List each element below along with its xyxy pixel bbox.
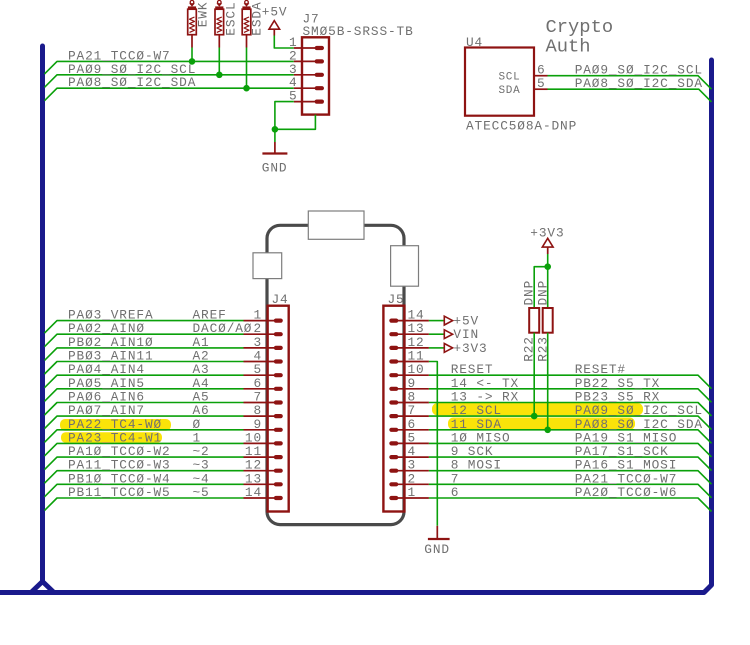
- wire net PA09_S0_I2C_SCL: [429, 416, 712, 430]
- wire net PA20_TCC0-W6: [429, 498, 712, 512]
- wire net PB22_S5_TX: [429, 389, 712, 403]
- wire J5 pin11 to GND: [429, 362, 437, 526]
- junction EWK net: [189, 58, 196, 65]
- wire net PA21_TCC0-W7 (J7 row): [45, 61, 294, 74]
- junction R23/SDA: [544, 427, 551, 434]
- svg-text:J4: J4: [272, 292, 289, 307]
- highlight PA23_TC4-W1: [61, 432, 162, 442]
- svg-text:~5: ~5: [193, 485, 210, 500]
- supply arrow +5V: [444, 316, 452, 325]
- wire R22 to SCL net: [533, 333, 535, 416]
- wire J7 pin5 to GND: [275, 102, 294, 130]
- ground GND (J7): [262, 142, 287, 154]
- wire net PA06_AIN6: [45, 403, 244, 416]
- resistor R23: [543, 308, 553, 333]
- wire net PB02_AIN10: [45, 348, 244, 361]
- svg-text:DNP: DNP: [535, 280, 550, 306]
- wire net PA23_TC4-W1: [45, 443, 244, 456]
- svg-text:+5V: +5V: [262, 5, 288, 20]
- junction R22/SCL: [531, 413, 538, 420]
- resistor ESCL: [215, 0, 224, 47]
- wire net PB03_AIN11: [45, 362, 244, 375]
- highlight 12 SCL / PA09 row: [432, 403, 643, 415]
- svg-text:PAØ8_SØ_I2C_SDA: PAØ8_SØ_I2C_SDA: [575, 76, 703, 91]
- bus left vertical: [40, 46, 45, 581]
- svg-text:ATECC5Ø8A-DNP: ATECC5Ø8A-DNP: [466, 119, 577, 134]
- junction ESDA net: [243, 85, 250, 92]
- resistor ESDA: [242, 0, 251, 47]
- supply +5V: [269, 21, 280, 30]
- wire net PA16_S1_MOSI: [429, 471, 712, 485]
- svg-text:5: 5: [537, 76, 546, 91]
- wire net PA08_S0_I2C_SDA (J7 row): [45, 88, 294, 101]
- bus left Y-junction: [31, 582, 54, 593]
- wire net PA09_S0_I2C_SCL (U4): [548, 76, 712, 90]
- svg-text:Auth: Auth: [546, 35, 591, 57]
- wire net PB10_TCC0-W4: [45, 484, 244, 497]
- USB connector: [308, 211, 364, 239]
- wire net PA19_S1_MISO: [429, 443, 712, 457]
- svg-text:+3V3: +3V3: [453, 341, 487, 356]
- wire net PA10_TCC0-W2: [45, 457, 244, 470]
- junction +3V3 split: [544, 263, 551, 270]
- svg-text:ESDA: ESDA: [250, 1, 265, 35]
- svg-text:GND: GND: [262, 161, 288, 176]
- supply +3V3: [542, 238, 553, 247]
- wire net PA11_TCC0-W3: [45, 471, 244, 484]
- supply arrow +3V3: [444, 344, 452, 353]
- wire net PA08_S0_I2C_SDA: [429, 430, 712, 444]
- connector J4: [244, 306, 289, 512]
- ground GND (J5): [428, 526, 450, 539]
- wire J7 shield to GND: [275, 115, 316, 130]
- junction GND J7: [272, 126, 279, 133]
- resistor EWK: [188, 0, 197, 47]
- svg-text:SMØ5B-SRSS-TB: SMØ5B-SRSS-TB: [303, 24, 414, 39]
- svg-text:1: 1: [408, 485, 417, 500]
- svg-text:SDA: SDA: [499, 85, 521, 97]
- wire J5 to VIN arrow: [429, 333, 444, 335]
- connector J7: [294, 37, 329, 114]
- highlight 11 SDA / PA08 row: [448, 418, 635, 430]
- wire net RESET#: [429, 375, 712, 389]
- wire junction to GND symbol: [274, 129, 276, 142]
- IC U4 ATECC508A: [465, 48, 548, 116]
- svg-text:EWK: EWK: [196, 2, 211, 28]
- resistor R22: [529, 308, 539, 333]
- wire net PB11_TCC0-W5: [45, 498, 244, 511]
- wire net PA05_AIN5: [45, 389, 244, 402]
- svg-text:GND: GND: [424, 542, 450, 557]
- svg-text:DNP: DNP: [522, 280, 537, 306]
- wire net PB23_S5_RX: [429, 403, 712, 417]
- svg-text:PB11_TCCØ-W5: PB11_TCCØ-W5: [68, 485, 171, 500]
- svg-text:PA2Ø_TCCØ-W6: PA2Ø_TCCØ-W6: [575, 485, 678, 500]
- wire +3V3 to R23: [547, 267, 549, 308]
- svg-text:PAØ8_SØ_I2C_SDA: PAØ8_SØ_I2C_SDA: [68, 75, 196, 90]
- wire net PA07_AIN7: [45, 416, 244, 429]
- svg-text:U4: U4: [466, 35, 483, 50]
- wire net PA09_S0_I2C_SCL (J7 row): [45, 75, 294, 88]
- junction ESCL net: [216, 72, 223, 79]
- svg-text:J5: J5: [388, 292, 405, 307]
- wire R23 to SDA net: [547, 333, 549, 430]
- highlight PA22_TC4-W0: [60, 419, 171, 431]
- bus bottom horizontal: [0, 590, 705, 595]
- wire net PA02_AIN0: [45, 334, 244, 347]
- wire net PA21_TCC0-W7: [429, 484, 712, 498]
- wire +5V to J7 pin1: [274, 36, 294, 49]
- battery connector: [391, 246, 419, 287]
- svg-text:SCL: SCL: [499, 71, 521, 83]
- wire net PA03_VREFA: [45, 321, 244, 334]
- module board outline: [267, 225, 404, 524]
- supply arrow VIN: [444, 330, 452, 339]
- button: [253, 253, 282, 279]
- wire +3V3 down: [547, 254, 549, 267]
- wire net PA08_S0_I2C_SDA (U4): [548, 89, 712, 102]
- wire EWK resistor to net: [191, 48, 193, 62]
- bus right corner: [704, 60, 712, 593]
- svg-text:14: 14: [245, 485, 262, 500]
- wire ESDA resistor to net: [246, 48, 248, 89]
- wire net PA04_AIN4: [45, 375, 244, 388]
- wire J5 to +5V arrow: [429, 320, 444, 322]
- connector J5: [383, 306, 429, 512]
- wire +3V3 to R22: [534, 267, 548, 308]
- svg-text:ESCL: ESCL: [223, 1, 238, 35]
- svg-text:+3V3: +3V3: [530, 225, 564, 240]
- svg-text:6: 6: [451, 485, 460, 500]
- wire net PA22_TC4-W0: [45, 430, 244, 443]
- wire J5 to +3V3 arrow: [429, 347, 444, 349]
- wire ESCL resistor to net: [218, 48, 220, 75]
- wire net PA17_S1_SCK: [429, 457, 712, 471]
